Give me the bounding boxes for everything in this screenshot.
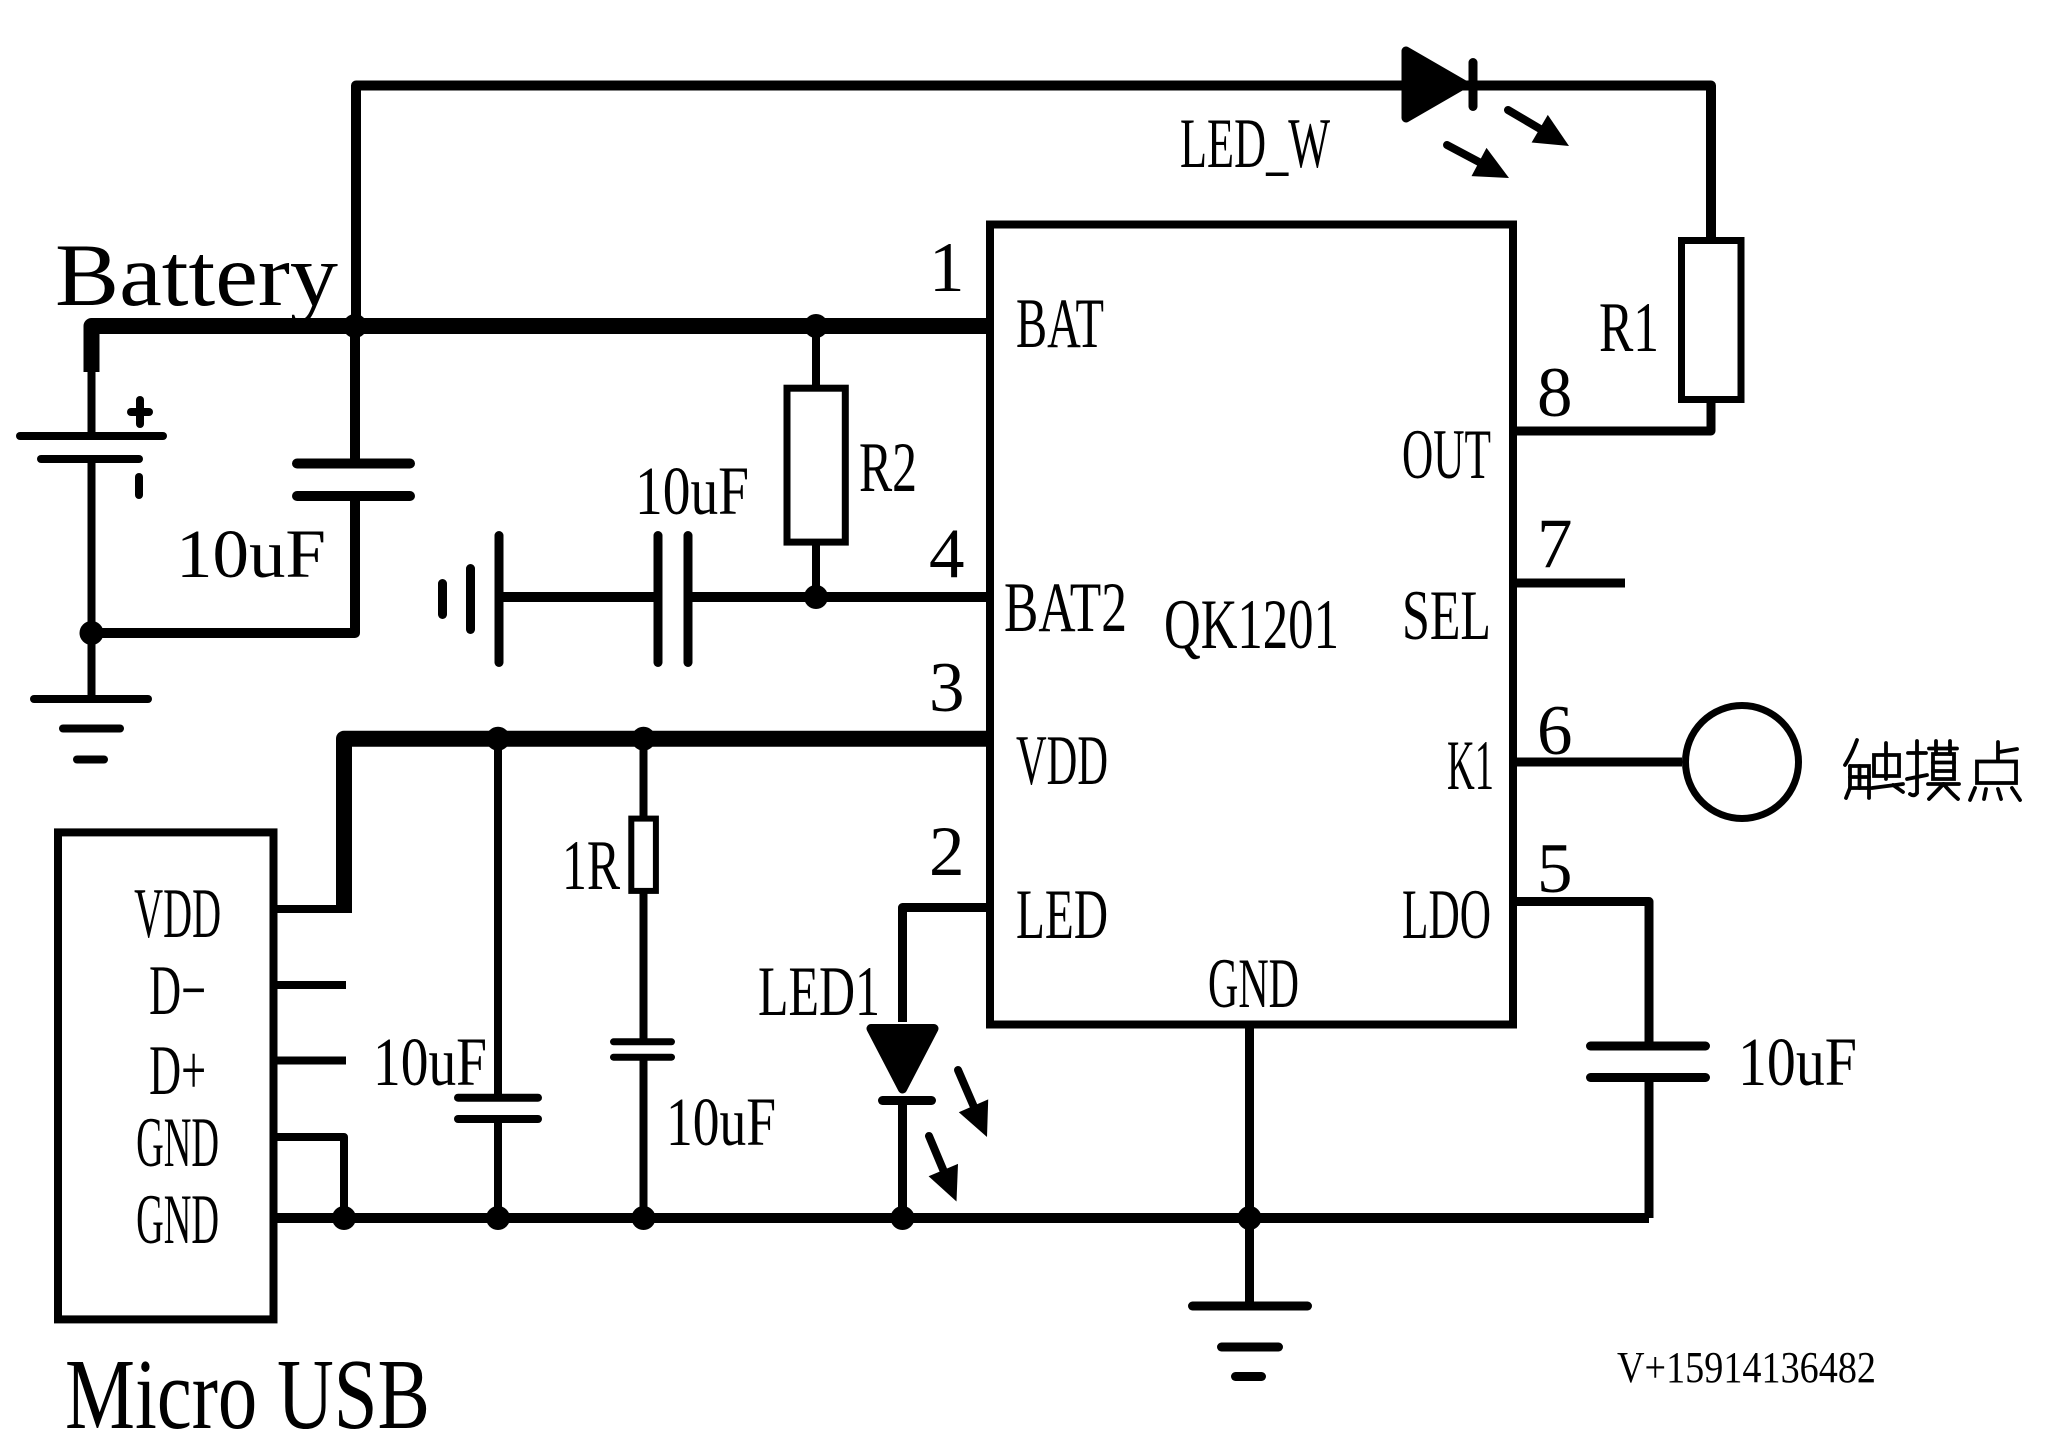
wire: C2 to BAT2 pin bbox=[691, 592, 990, 602]
svg-text:VDD: VDD bbox=[134, 875, 221, 953]
wire: C3 bottom lead bbox=[494, 1122, 502, 1218]
junction node (rail / C3) bbox=[486, 1206, 510, 1230]
svg-text:7: 7 bbox=[1537, 505, 1573, 583]
wire: LED pin stub (pin 2) bbox=[903, 908, 991, 1023]
pin number 3 bbox=[929, 649, 965, 727]
resistor R2 bbox=[787, 388, 845, 542]
capacitor C1 (10uF) bbox=[297, 464, 410, 497]
label LED_W bbox=[1180, 105, 1330, 183]
wire: C3 top lead bbox=[494, 746, 502, 1095]
svg-text:VDD: VDD bbox=[1016, 722, 1108, 800]
wire: 1R to C4 bbox=[640, 891, 648, 1039]
svg-text:3: 3 bbox=[929, 649, 965, 727]
svg-text:R2: R2 bbox=[859, 429, 917, 507]
wire: battery negative lead bbox=[88, 459, 96, 633]
LED LED1 bbox=[871, 1029, 934, 1101]
wire: chassis to C2 bbox=[499, 592, 655, 602]
junction node (rail / USB gnd) bbox=[332, 1206, 356, 1230]
pin number 2 bbox=[929, 813, 965, 891]
svg-text:Micro USB: Micro USB bbox=[65, 1338, 430, 1447]
label pin name OUT bbox=[1402, 416, 1491, 494]
label Micro USB bbox=[65, 1338, 430, 1447]
svg-text:5: 5 bbox=[1537, 830, 1573, 908]
svg-text:LED1: LED1 bbox=[758, 953, 880, 1031]
svg-text:1: 1 bbox=[929, 229, 965, 307]
ground (main) bbox=[1193, 1306, 1308, 1377]
svg-text:Battery: Battery bbox=[55, 227, 339, 325]
label C3 10uF bbox=[373, 1024, 487, 1100]
label pin name GND bbox=[1208, 945, 1299, 1023]
svg-text:LED_W: LED_W bbox=[1180, 105, 1330, 183]
label C1 10uF bbox=[176, 516, 326, 592]
label 1R bbox=[562, 827, 620, 905]
label pin name VDD bbox=[1016, 722, 1108, 800]
capacitor C5 (10uF) bbox=[1591, 1046, 1706, 1078]
svg-text:LDO: LDO bbox=[1402, 876, 1491, 954]
junction node (rail / C4) bbox=[632, 1206, 656, 1230]
capacitor C4 (10uF) bbox=[614, 1042, 672, 1057]
wire: R2 top lead bbox=[812, 330, 820, 390]
label pin name BAT bbox=[1016, 285, 1104, 363]
svg-text:LED: LED bbox=[1016, 876, 1108, 954]
svg-text:K1: K1 bbox=[1447, 727, 1494, 805]
junction node (rail / LED1) bbox=[891, 1206, 915, 1230]
label C2 10uF bbox=[635, 453, 749, 529]
svg-text:GND: GND bbox=[1208, 945, 1299, 1023]
capacitor C2 (10uF, series) bbox=[658, 536, 688, 663]
IC U1 QK1201 bbox=[990, 225, 1513, 1025]
svg-text:QK1201: QK1201 bbox=[1164, 586, 1339, 664]
wire: C5 bottom lead bbox=[1645, 1082, 1654, 1218]
label VDD (USB pin) bbox=[134, 875, 221, 953]
wire: K1 stub (pin 6) bbox=[1513, 758, 1682, 767]
svg-text:V+15914136482: V+15914136482 bbox=[1617, 1343, 1876, 1392]
ground (chassis, BAT2 reference) bbox=[443, 536, 500, 663]
label C5 10uF bbox=[1738, 1024, 1857, 1100]
svg-text:2: 2 bbox=[929, 813, 965, 891]
svg-text:SEL: SEL bbox=[1402, 577, 1491, 655]
pin number 1 bbox=[929, 229, 965, 307]
pin number 4 bbox=[929, 515, 965, 593]
label C4 10uF bbox=[666, 1084, 776, 1160]
wire: USB D- stub bbox=[273, 981, 346, 989]
svg-text:OUT: OUT bbox=[1402, 416, 1491, 494]
junction node (rail / C1) bbox=[343, 314, 367, 338]
wire: LED_W top net bbox=[356, 86, 1711, 327]
label pin name BAT2 bbox=[1004, 569, 1127, 647]
wire: BAT rail (battery+ to pin 1) bbox=[92, 326, 991, 372]
wire: OUT (pin 8) to R1 bbox=[1513, 399, 1711, 431]
svg-text:D+: D+ bbox=[149, 1032, 206, 1110]
ground (battery) bbox=[34, 699, 148, 760]
junction node (VDD / 1R) bbox=[632, 727, 656, 751]
wire: USB D+ stub bbox=[273, 1057, 346, 1065]
wire: SEL stub (pin 7) bbox=[1513, 579, 1625, 588]
label R1 bbox=[1599, 289, 1659, 367]
junction node (rail / R2) bbox=[804, 314, 828, 338]
label 触摸点 bbox=[1845, 740, 2020, 800]
LED LED_W bbox=[1406, 51, 1473, 118]
svg-text:1R: 1R bbox=[562, 827, 620, 905]
battery BT1 bbox=[20, 400, 163, 495]
pin number 8 bbox=[1537, 354, 1573, 432]
svg-text:D−: D− bbox=[149, 952, 206, 1030]
wire: R2 bottom lead bbox=[812, 542, 820, 597]
svg-text:10uF: 10uF bbox=[373, 1024, 487, 1100]
wire: USB GND stub bbox=[273, 1137, 344, 1218]
capacitor C3 (10uF) bbox=[458, 1098, 538, 1119]
connector J1 Micro USB bbox=[58, 832, 274, 1319]
label D+ (USB pin) bbox=[149, 1032, 206, 1110]
wire: 1R top lead bbox=[640, 746, 648, 818]
wire: LED1 cathode lead bbox=[898, 1100, 907, 1218]
junction node (rail / IC GND) bbox=[1238, 1206, 1262, 1230]
svg-text:8: 8 bbox=[1537, 354, 1573, 432]
LED_W light arrows bbox=[1447, 110, 1569, 178]
label pin name SEL bbox=[1402, 577, 1491, 655]
svg-text:10uF: 10uF bbox=[176, 516, 326, 592]
label V+15914136482 bbox=[1617, 1343, 1876, 1392]
label GND2 (USB pin) bbox=[136, 1181, 219, 1259]
svg-text:BAT2: BAT2 bbox=[1004, 569, 1127, 647]
svg-text:10uF: 10uF bbox=[666, 1084, 776, 1160]
pin number 5 bbox=[1537, 830, 1573, 908]
label pin name LED bbox=[1016, 876, 1108, 954]
label QK1201 bbox=[1164, 586, 1339, 664]
label Battery bbox=[55, 227, 339, 325]
wire: C1 bottom lead bbox=[92, 499, 356, 633]
touch pad K1 bbox=[1686, 706, 1799, 819]
label pin name LDO bbox=[1402, 876, 1491, 954]
wire: battery positive lead bbox=[88, 330, 96, 432]
junction node (R2 / BAT2) bbox=[804, 585, 828, 609]
svg-text:GND: GND bbox=[136, 1104, 219, 1182]
wire: LDO stub to C5 bbox=[1513, 902, 1649, 1043]
svg-text:10uF: 10uF bbox=[1738, 1024, 1857, 1100]
resistor R1 bbox=[1682, 241, 1742, 400]
wire: USB VDD stub bbox=[273, 905, 352, 913]
pin number 7 bbox=[1537, 505, 1573, 583]
svg-text:BAT: BAT bbox=[1016, 285, 1104, 363]
svg-text:10uF: 10uF bbox=[635, 453, 749, 529]
label pin name K1 bbox=[1447, 727, 1494, 805]
wire: VDD rail bbox=[344, 739, 990, 911]
svg-text:R1: R1 bbox=[1599, 289, 1659, 367]
resistor 1R bbox=[631, 819, 656, 891]
wire: C1 top lead bbox=[350, 330, 360, 460]
wire: ground lead (battery) bbox=[88, 633, 96, 697]
wire: C4 bottom lead bbox=[640, 1060, 648, 1218]
LED1 light arrows bbox=[929, 1070, 989, 1202]
pin number 6 bbox=[1537, 692, 1573, 770]
label R2 bbox=[859, 429, 917, 507]
junction node (battery-) bbox=[80, 621, 104, 645]
label D- (USB pin) bbox=[149, 952, 206, 1030]
wire: ground rail bbox=[273, 1213, 1649, 1223]
wire: GND pin lead bbox=[1245, 1028, 1254, 1302]
svg-text:GND: GND bbox=[136, 1181, 219, 1259]
junction node (VDD / C3) bbox=[486, 727, 510, 751]
wire: battery- to C1 bottom bbox=[92, 628, 356, 638]
label LED1 bbox=[758, 953, 880, 1031]
svg-text:4: 4 bbox=[929, 515, 965, 593]
label GND (USB pin) bbox=[136, 1104, 219, 1182]
